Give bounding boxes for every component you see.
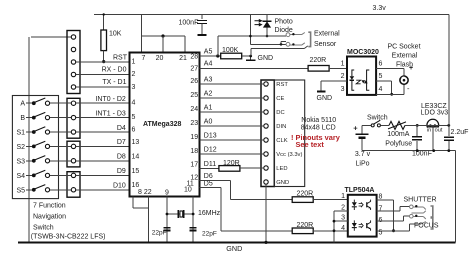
svg-text:TX - D1: TX - D1 <box>102 79 126 86</box>
svg-text:GND: GND <box>317 95 333 102</box>
svg-text:3.7 v: 3.7 v <box>355 151 371 158</box>
svg-text:6: 6 <box>379 217 383 224</box>
svg-text:See text: See text <box>296 140 325 149</box>
svg-text:100mA: 100mA <box>387 131 410 138</box>
svg-text:10K: 10K <box>109 31 122 38</box>
svg-text:External: External <box>392 53 418 60</box>
svg-text:2: 2 <box>341 73 345 80</box>
svg-text:+: + <box>353 124 358 133</box>
svg-text:GND: GND <box>276 180 289 186</box>
svg-text:21: 21 <box>179 55 187 62</box>
svg-text:100K: 100K <box>222 47 239 54</box>
svg-text:INT0 - D2: INT0 - D2 <box>95 96 125 103</box>
svg-text:Polyfuse: Polyfuse <box>385 140 412 147</box>
svg-text:18: 18 <box>190 148 198 155</box>
svg-text:GND: GND <box>226 244 242 253</box>
svg-text:DC: DC <box>276 110 284 116</box>
svg-text:8 22: 8 22 <box>138 189 152 196</box>
svg-text:A3: A3 <box>204 76 213 83</box>
svg-text:4: 4 <box>132 100 136 107</box>
svg-text:DIN: DIN <box>276 124 286 130</box>
svg-text:12: 12 <box>190 175 198 182</box>
svg-text:RST: RST <box>113 55 128 62</box>
svg-text:20: 20 <box>156 55 164 62</box>
svg-text:LED: LED <box>276 166 287 172</box>
svg-text:1: 1 <box>341 193 345 200</box>
svg-text:D6: D6 <box>204 173 213 180</box>
svg-text:D8: D8 <box>117 154 126 161</box>
svg-text:2: 2 <box>132 71 136 78</box>
svg-text:A2: A2 <box>204 91 213 98</box>
svg-text:(TSWB-3N-CB222 LFS): (TSWB-3N-CB222 LFS) <box>31 233 106 240</box>
svg-text:S4: S4 <box>16 173 25 180</box>
svg-text:2: 2 <box>341 204 345 211</box>
svg-text:3: 3 <box>341 215 345 222</box>
svg-text:100nF: 100nF <box>179 20 199 27</box>
svg-text:15: 15 <box>132 168 140 175</box>
svg-text:28: 28 <box>190 53 198 60</box>
svg-text:17: 17 <box>190 162 198 169</box>
svg-text:Diode: Diode <box>275 27 293 34</box>
svg-text:26: 26 <box>190 78 198 85</box>
svg-text:MOC3020: MOC3020 <box>347 49 379 56</box>
svg-text:PC Socket: PC Socket <box>387 44 420 51</box>
svg-text:LiPo: LiPo <box>356 160 370 167</box>
svg-text:D10: D10 <box>113 183 126 190</box>
svg-text:INT1 - D3: INT1 - D3 <box>95 110 125 117</box>
svg-text:CE: CE <box>276 96 284 102</box>
svg-text:A: A <box>20 101 25 108</box>
svg-text:8: 8 <box>379 194 383 201</box>
svg-text:D7: D7 <box>117 139 126 146</box>
svg-text:13: 13 <box>132 139 140 146</box>
svg-text:3: 3 <box>132 84 136 91</box>
svg-text:Navigation: Navigation <box>33 214 66 221</box>
svg-text:9: 9 <box>165 190 169 197</box>
svg-text:FOCUS: FOCUS <box>414 223 439 230</box>
svg-text:7: 7 <box>379 206 383 213</box>
svg-text:LDO 3v3: LDO 3v3 <box>421 109 449 116</box>
svg-text:1: 1 <box>341 61 345 68</box>
svg-text:D4: D4 <box>117 125 126 132</box>
svg-text:Flash: Flash <box>396 62 413 69</box>
svg-text:A5: A5 <box>204 48 213 55</box>
svg-text:5: 5 <box>132 114 136 121</box>
svg-text:16MHz: 16MHz <box>198 210 221 217</box>
svg-text:220R: 220R <box>297 222 314 229</box>
svg-text:D11: D11 <box>204 161 216 168</box>
svg-text:27: 27 <box>190 66 198 73</box>
svg-text:in: in <box>427 128 431 134</box>
svg-text:D5: D5 <box>204 181 213 188</box>
svg-text:3.3v: 3.3v <box>373 5 387 12</box>
svg-text:6: 6 <box>379 61 383 68</box>
svg-text:Photo: Photo <box>275 19 293 26</box>
svg-text:D13: D13 <box>204 133 217 140</box>
svg-text:Switch: Switch <box>33 225 54 232</box>
svg-text:S3: S3 <box>16 158 25 165</box>
svg-text:A1: A1 <box>204 105 213 112</box>
svg-text:5: 5 <box>379 73 383 80</box>
svg-text:120R: 120R <box>223 160 240 167</box>
svg-text:25: 25 <box>190 92 198 99</box>
svg-text:D9: D9 <box>117 168 126 175</box>
svg-text:TLP504A: TLP504A <box>345 187 375 194</box>
svg-text:4: 4 <box>341 225 345 232</box>
svg-text:S1: S1 <box>16 130 25 137</box>
svg-text:1: 1 <box>132 59 136 66</box>
svg-text:100nF: 100nF <box>412 151 432 158</box>
svg-text:GND: GND <box>258 55 274 62</box>
svg-text:A4: A4 <box>204 61 213 68</box>
svg-text:14: 14 <box>132 154 140 161</box>
svg-text:22pF: 22pF <box>152 230 167 237</box>
svg-text:7: 7 <box>142 55 146 62</box>
svg-text:S5: S5 <box>16 187 25 194</box>
svg-text:24: 24 <box>190 106 198 113</box>
svg-text:220R: 220R <box>310 57 327 64</box>
svg-text:19: 19 <box>190 134 198 141</box>
svg-text:2.2uF: 2.2uF <box>451 129 469 136</box>
svg-text:3: 3 <box>341 86 345 93</box>
svg-text:External: External <box>314 31 340 38</box>
svg-text:CLK: CLK <box>276 138 287 144</box>
svg-text:SHUTTER: SHUTTER <box>404 197 437 204</box>
svg-text:RST: RST <box>276 82 288 88</box>
svg-text:22pF: 22pF <box>202 230 217 237</box>
svg-text:11: 11 <box>187 181 194 188</box>
svg-text:84x48 LCD: 84x48 LCD <box>301 124 336 131</box>
svg-text:Nokia 5110: Nokia 5110 <box>301 117 336 124</box>
svg-text:Vcc (3.3v): Vcc (3.3v) <box>276 152 302 158</box>
svg-text:S2: S2 <box>16 144 25 151</box>
svg-text:4: 4 <box>379 86 383 93</box>
svg-text:Sensor: Sensor <box>314 41 337 48</box>
svg-text:23: 23 <box>190 120 198 127</box>
svg-text:220R: 220R <box>297 191 314 198</box>
svg-text:out: out <box>435 128 443 134</box>
svg-text:ATMega328: ATMega328 <box>143 121 181 128</box>
svg-text:7 Function: 7 Function <box>33 203 66 210</box>
svg-text:B: B <box>20 115 25 122</box>
svg-text:A0: A0 <box>204 119 213 126</box>
svg-text:Switch: Switch <box>367 115 388 122</box>
svg-text:RX - D0: RX - D0 <box>102 67 127 74</box>
svg-text:D12: D12 <box>204 147 217 154</box>
svg-text:6: 6 <box>132 127 136 134</box>
